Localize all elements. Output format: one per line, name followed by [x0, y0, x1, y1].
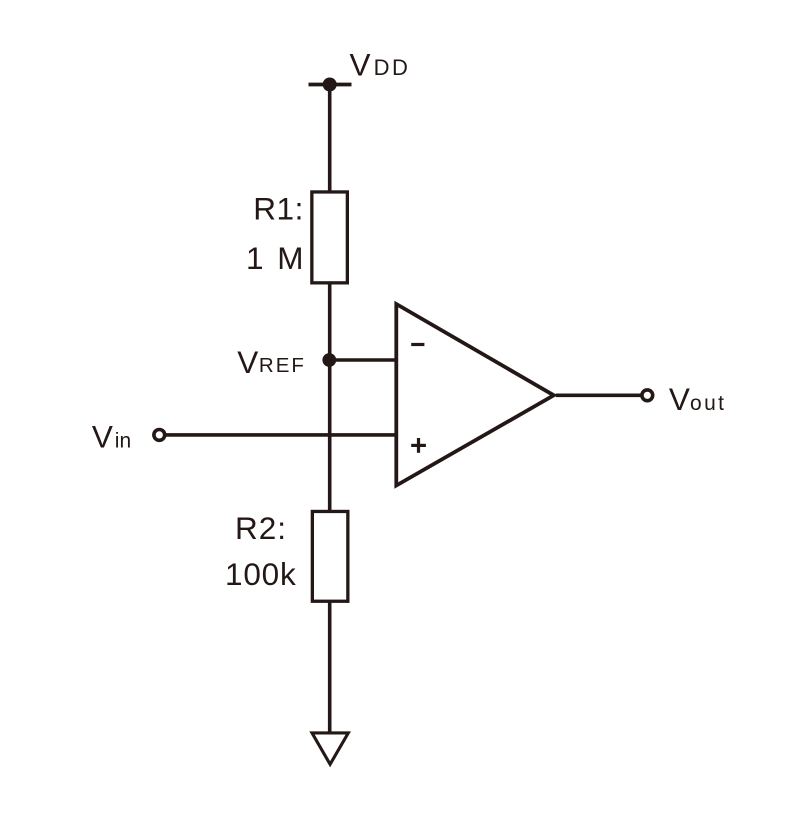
op-amp inverting input marker -: [411, 343, 424, 346]
op-amp non-inverting input marker +: [411, 438, 426, 453]
label VREF: [237, 344, 306, 380]
label VDD: [350, 47, 411, 83]
wire VDD to R1: [328, 85, 332, 194]
wire Vin to op-amp non-inverting input: [165, 433, 398, 437]
resistor R2 body: [312, 511, 348, 601]
svg-text:100k: 100k: [225, 556, 297, 592]
svg-text:DD: DD: [374, 55, 411, 80]
svg-text:REF: REF: [259, 354, 306, 377]
node VDD junction dot: [323, 78, 337, 92]
resistor R1 body: [312, 192, 348, 283]
svg-text:in: in: [115, 429, 131, 452]
svg-text:1 M: 1 M: [246, 240, 306, 276]
wire VREF node to R2: [328, 360, 332, 512]
terminal Vout open circle: [642, 390, 653, 401]
svg-text:out: out: [690, 392, 726, 415]
wire VREF node to op-amp inverting input: [330, 358, 398, 362]
ground symbol: [312, 733, 348, 764]
wire op-amp output to Vout terminal: [556, 393, 642, 397]
op-amp U1 triangle: [396, 304, 554, 486]
svg-text:R2:: R2:: [235, 510, 287, 546]
wire R2 to ground: [328, 600, 332, 732]
wire VDD rail tick: [309, 83, 352, 87]
label Vin: [92, 418, 131, 454]
svg-text:V: V: [237, 344, 258, 380]
svg-text:V: V: [669, 381, 690, 417]
wire R1 to VREF node: [328, 282, 332, 360]
svg-text:V: V: [350, 47, 371, 83]
svg-text:V: V: [92, 418, 113, 454]
node VREF junction dot: [322, 353, 336, 367]
svg-text:R1:: R1:: [253, 191, 304, 227]
terminal Vin open circle: [154, 430, 165, 441]
label Vout: [669, 381, 727, 417]
